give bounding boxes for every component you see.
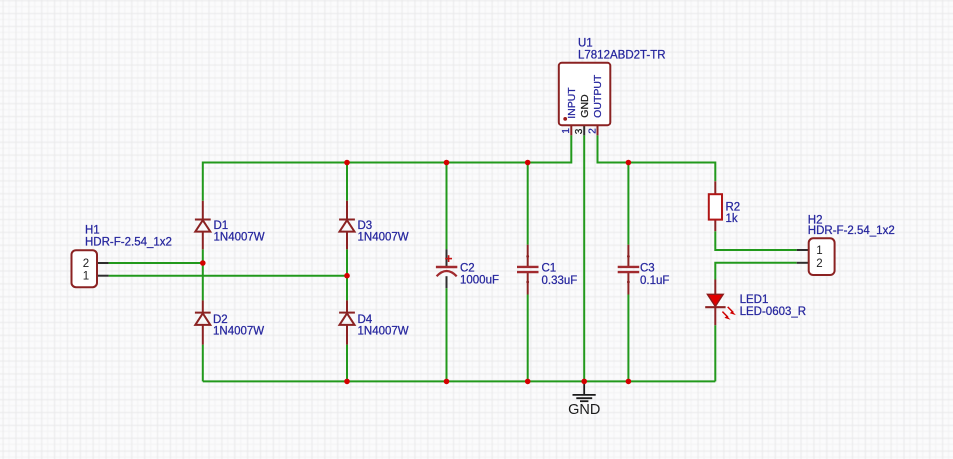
svg-text:D2: D2 — [213, 314, 228, 326]
svg-text:U1: U1 — [578, 38, 593, 50]
svg-text:1: 1 — [816, 245, 822, 257]
svg-text:LED1: LED1 — [740, 294, 769, 306]
svg-text:1N4007W: 1N4007W — [358, 326, 409, 338]
svg-text:2: 2 — [816, 258, 822, 270]
svg-text:L7812ABD2T-TR: L7812ABD2T-TR — [578, 50, 666, 62]
svg-text:LED-0603_R: LED-0603_R — [740, 306, 806, 318]
svg-text:C1: C1 — [542, 263, 557, 275]
svg-text:1: 1 — [83, 271, 89, 283]
svg-text:C2: C2 — [460, 263, 475, 275]
svg-text:2: 2 — [83, 258, 89, 270]
svg-text:1k: 1k — [726, 213, 738, 225]
svg-text:3: 3 — [574, 128, 585, 134]
svg-text:OUTPUT: OUTPUT — [592, 74, 604, 118]
svg-text:0.1uF: 0.1uF — [640, 275, 669, 287]
svg-text:1000uF: 1000uF — [460, 275, 499, 287]
svg-text:1N4007W: 1N4007W — [358, 231, 409, 243]
svg-text:1N4007W: 1N4007W — [213, 326, 264, 338]
svg-text:1: 1 — [561, 128, 572, 134]
svg-text:INPUT: INPUT — [566, 87, 578, 119]
svg-text:2: 2 — [588, 128, 599, 134]
svg-text:GND: GND — [579, 94, 591, 118]
svg-text:0.33uF: 0.33uF — [542, 275, 578, 287]
svg-text:H1: H1 — [85, 225, 100, 237]
svg-text:GND: GND — [568, 402, 600, 418]
svg-text:D4: D4 — [358, 314, 373, 326]
svg-text:D3: D3 — [358, 220, 373, 232]
svg-text:1N4007W: 1N4007W — [214, 231, 265, 243]
svg-text:HDR-F-2.54_1x2: HDR-F-2.54_1x2 — [85, 237, 172, 249]
svg-text:R2: R2 — [726, 202, 741, 214]
svg-text:D1: D1 — [214, 220, 229, 232]
svg-text:HDR-F-2.54_1x2: HDR-F-2.54_1x2 — [808, 225, 895, 237]
svg-text:C3: C3 — [640, 263, 655, 275]
